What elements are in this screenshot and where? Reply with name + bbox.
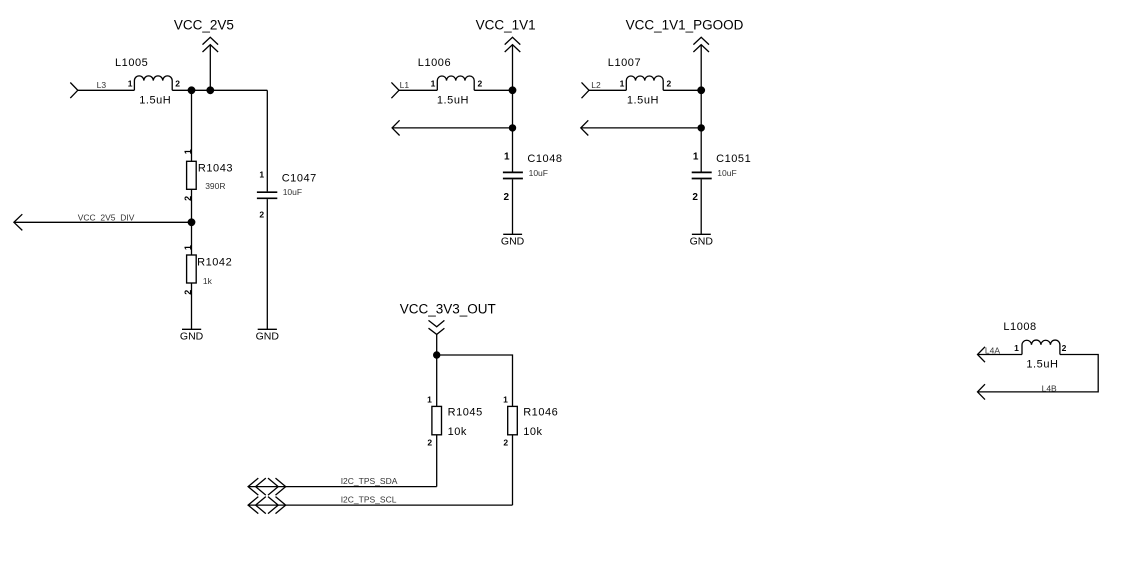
wire L1006 to VCC_1V1 node bbox=[474, 89, 512, 91]
svg-text:VCC_3V3_OUT: VCC_3V3_OUT bbox=[400, 302, 496, 317]
wire feedback PGOOD bbox=[581, 127, 701, 129]
ground GND (C1047) bbox=[256, 329, 280, 342]
connector bidir I2C_TPS_SDA bbox=[248, 478, 286, 495]
svg-text:1.5uH: 1.5uH bbox=[1026, 359, 1058, 371]
net label L4B bbox=[1042, 384, 1057, 394]
pin 2 C1048 bbox=[504, 192, 510, 203]
svg-text:10uF: 10uF bbox=[283, 187, 302, 197]
pin 2 R1042 bbox=[183, 290, 193, 295]
svg-text:1: 1 bbox=[427, 395, 432, 405]
pin 2 C1047 bbox=[259, 210, 264, 220]
svg-text:2: 2 bbox=[259, 210, 264, 220]
svg-text:10k: 10k bbox=[523, 426, 542, 438]
svg-text:2: 2 bbox=[692, 192, 698, 203]
svg-text:R1042: R1042 bbox=[197, 256, 232, 268]
svg-text:10k: 10k bbox=[448, 426, 467, 438]
svg-text:I2C_TPS_SDA: I2C_TPS_SDA bbox=[341, 476, 398, 486]
svg-text:1: 1 bbox=[431, 79, 436, 89]
svg-text:R1043: R1043 bbox=[198, 162, 233, 174]
wire R1045 to SDA bbox=[436, 435, 438, 487]
junction node VCC_2V5_DIV bbox=[188, 218, 196, 226]
svg-text:10uF: 10uF bbox=[717, 168, 736, 178]
svg-text:VCC_2V5_DIV: VCC_2V5_DIV bbox=[78, 213, 135, 223]
connector L3 input arrow bbox=[70, 83, 78, 99]
svg-text:10uF: 10uF bbox=[529, 168, 548, 178]
pin 1 R1046 bbox=[503, 395, 508, 405]
resistor R1042 bbox=[187, 255, 197, 283]
svg-text:1: 1 bbox=[693, 152, 699, 163]
svg-text:1.5uH: 1.5uH bbox=[139, 95, 171, 107]
svg-text:2: 2 bbox=[1062, 343, 1067, 353]
value 390R bbox=[205, 181, 225, 191]
svg-text:C1051: C1051 bbox=[716, 153, 751, 165]
net label L2 bbox=[591, 80, 601, 90]
pin 2 L1007 bbox=[667, 79, 672, 89]
inductor L1007 bbox=[626, 76, 663, 90]
wire L4A to L1008 bbox=[978, 354, 1023, 356]
wire L1005 to C1047 branch bbox=[172, 89, 267, 91]
pin 1 R1045 bbox=[427, 395, 432, 405]
inductor L1006 bbox=[437, 76, 474, 90]
svg-text:I2C_TPS_SCL: I2C_TPS_SCL bbox=[341, 495, 397, 505]
pin 1 C1048 bbox=[504, 152, 510, 163]
wire I2C_TPS_SCL bbox=[248, 504, 512, 506]
svg-text:L3: L3 bbox=[97, 80, 107, 90]
svg-text:L1005: L1005 bbox=[115, 57, 148, 69]
junction node feedback PGOOD bbox=[698, 124, 705, 131]
svg-text:2: 2 bbox=[478, 79, 483, 89]
svg-text:R1046: R1046 bbox=[523, 407, 558, 419]
connector L2 input arrow bbox=[582, 82, 590, 98]
svg-text:VCC_1V1_PGOOD: VCC_1V1_PGOOD bbox=[626, 17, 744, 32]
connector feedback arrow PGOOD bbox=[581, 120, 589, 135]
wire C1048 bottom bbox=[512, 179, 514, 234]
junction node R1043 top bbox=[188, 86, 196, 94]
svg-text:1: 1 bbox=[503, 395, 508, 405]
wire DIV node to R1042 bbox=[191, 222, 193, 255]
wire R1042 to ground bbox=[191, 283, 193, 329]
pin 2 C1051 bbox=[692, 192, 698, 203]
pin 1 L1006 bbox=[431, 79, 436, 89]
wire L1007 to VCC_1V1_PGOOD node bbox=[663, 89, 701, 91]
wire C1051 top bbox=[700, 128, 702, 172]
net label I2C_TPS_SDA bbox=[341, 476, 398, 486]
wire L2 to L1007 bbox=[589, 89, 626, 91]
value 10k R1046 bbox=[523, 426, 542, 438]
svg-text:L1008: L1008 bbox=[1003, 321, 1036, 333]
wire C1047 top bbox=[266, 90, 268, 191]
svg-text:GND: GND bbox=[180, 331, 204, 343]
power label VCC_1V1 bbox=[476, 17, 536, 32]
svg-text:L1006: L1006 bbox=[418, 57, 451, 69]
value 10uF C1048 bbox=[529, 168, 548, 178]
wire VCC_1V1 node down bbox=[512, 90, 514, 128]
power VCC_1V1 symbol bbox=[505, 37, 521, 90]
pin 1 R1042 bbox=[183, 245, 193, 250]
resistor R1043 bbox=[187, 161, 197, 189]
net label L4A bbox=[985, 346, 1000, 356]
svg-text:2: 2 bbox=[427, 437, 432, 447]
resistor R1046 bbox=[508, 406, 518, 434]
wire R1043 to DIV node bbox=[191, 189, 193, 222]
net label VCC_2V5_DIV bbox=[78, 213, 135, 223]
label R1045 bbox=[448, 407, 483, 419]
ground GND (R1042) bbox=[180, 329, 204, 342]
junction node VCC_1V1 bbox=[509, 86, 517, 94]
svg-text:2: 2 bbox=[504, 192, 510, 203]
label L1006 bbox=[418, 57, 451, 69]
wire C1047 bottom bbox=[266, 199, 268, 329]
svg-text:1: 1 bbox=[183, 245, 193, 250]
junction node VCC_1V1_PGOOD bbox=[697, 86, 705, 94]
value 1k bbox=[203, 276, 213, 286]
svg-text:L1007: L1007 bbox=[608, 57, 641, 69]
pin 1 R1043 bbox=[183, 149, 193, 154]
pin 2 L1008 bbox=[1062, 343, 1067, 353]
svg-text:L4B: L4B bbox=[1042, 384, 1057, 394]
wire 3V3 node to R1046 branch bbox=[437, 355, 513, 406]
wire VCC_1V1_PGOOD node down bbox=[700, 90, 702, 128]
pin 1 L1005 bbox=[128, 79, 133, 89]
net label L3 bbox=[97, 80, 107, 90]
wire C1051 bottom bbox=[700, 179, 702, 234]
value 1.5uH L1007 bbox=[627, 95, 659, 107]
pin 2 L1006 bbox=[478, 79, 483, 89]
svg-text:1.5uH: 1.5uH bbox=[627, 95, 659, 107]
power label VCC_2V5 bbox=[174, 17, 234, 32]
wire L1008 to right corner bbox=[978, 355, 1099, 392]
svg-text:L4A: L4A bbox=[985, 346, 1000, 356]
label L1007 bbox=[608, 57, 641, 69]
resistor R1045 bbox=[432, 406, 442, 434]
connector L4B arrow bbox=[978, 384, 986, 399]
capacitor C1048 bbox=[503, 172, 523, 178]
pin 2 L1005 bbox=[175, 79, 180, 89]
svg-text:L2: L2 bbox=[591, 80, 601, 90]
label C1048 bbox=[527, 153, 562, 165]
wire R1046 to SCL bbox=[512, 435, 514, 505]
wire C1048 top bbox=[512, 128, 514, 172]
svg-text:VCC_1V1: VCC_1V1 bbox=[476, 17, 536, 32]
label L1005 bbox=[115, 57, 148, 69]
wire L3 to L1005 bbox=[78, 89, 135, 91]
svg-text:GND: GND bbox=[501, 236, 525, 248]
svg-text:C1048: C1048 bbox=[527, 153, 562, 165]
wire I2C_TPS_SDA bbox=[248, 486, 437, 488]
capacitor C1047 bbox=[257, 192, 277, 198]
svg-text:L1: L1 bbox=[400, 80, 410, 90]
svg-text:GND: GND bbox=[256, 331, 280, 343]
svg-text:2: 2 bbox=[667, 79, 672, 89]
label C1051 bbox=[716, 153, 751, 165]
pin 1 C1051 bbox=[693, 152, 699, 163]
connector feedback arrow VCC_1V1 bbox=[392, 120, 400, 135]
ground GND (C1051) bbox=[690, 234, 714, 247]
ground GND (C1048) bbox=[501, 234, 525, 247]
wire L1 to L1006 bbox=[399, 89, 437, 91]
svg-text:R1045: R1045 bbox=[448, 407, 483, 419]
svg-text:390R: 390R bbox=[205, 181, 225, 191]
value 10uF C1051 bbox=[717, 168, 736, 178]
power label VCC_1V1_PGOOD bbox=[626, 17, 744, 32]
svg-text:1: 1 bbox=[128, 79, 133, 89]
pin 2 R1043 bbox=[183, 196, 193, 201]
pin 1 L1008 bbox=[1014, 343, 1019, 353]
svg-text:1: 1 bbox=[183, 149, 193, 154]
connector VCC_2V5_DIV arrow bbox=[14, 214, 22, 230]
svg-text:1.5uH: 1.5uH bbox=[437, 95, 469, 107]
value 10uF C1047 bbox=[283, 187, 302, 197]
junction node VCC_3V3_OUT bbox=[433, 351, 440, 358]
pin 1 L1007 bbox=[620, 79, 625, 89]
label C1047 bbox=[282, 173, 317, 185]
pin 1 C1047 bbox=[259, 169, 264, 179]
net label I2C_TPS_SCL bbox=[341, 495, 397, 505]
svg-text:1: 1 bbox=[504, 152, 510, 163]
svg-text:C1047: C1047 bbox=[282, 173, 317, 185]
value 10k R1045 bbox=[448, 426, 467, 438]
pin 2 R1045 bbox=[427, 437, 432, 447]
value 1.5uH L1006 bbox=[437, 95, 469, 107]
wire VCC_2V5 node to R1043 bbox=[191, 90, 193, 161]
pin 2 R1046 bbox=[503, 437, 508, 447]
power VCC_1V1_PGOOD symbol bbox=[693, 37, 709, 90]
svg-text:2: 2 bbox=[175, 79, 180, 89]
junction node feedback VCC_1V1 bbox=[509, 124, 516, 131]
inductor L1008 bbox=[1022, 340, 1060, 354]
junction node VCC_2V5 bbox=[206, 86, 214, 94]
label L1008 bbox=[1003, 321, 1036, 333]
label R1046 bbox=[523, 407, 558, 419]
svg-text:2: 2 bbox=[503, 437, 508, 447]
inductor L1005 bbox=[134, 76, 172, 90]
svg-text:GND: GND bbox=[690, 236, 714, 248]
wire feedback VCC_1V1 bbox=[392, 127, 512, 129]
svg-text:VCC_2V5: VCC_2V5 bbox=[174, 17, 234, 32]
value 1.5uH L1008 bbox=[1026, 359, 1058, 371]
power VCC_2V5 symbol bbox=[203, 37, 219, 90]
svg-text:1k: 1k bbox=[203, 276, 213, 286]
value 1.5uH L1005 bbox=[139, 95, 171, 107]
svg-text:1: 1 bbox=[1014, 343, 1019, 353]
net label L1 bbox=[400, 80, 410, 90]
label R1043 bbox=[198, 162, 233, 174]
power VCC_3V3_OUT symbol bbox=[429, 320, 445, 355]
power label VCC_3V3_OUT bbox=[400, 302, 496, 317]
svg-text:1: 1 bbox=[259, 169, 264, 179]
wire 3V3 node to R1045 bbox=[436, 355, 438, 406]
svg-text:1: 1 bbox=[620, 79, 625, 89]
connector bidir I2C_TPS_SCL bbox=[248, 497, 286, 514]
connector L4A arrow bbox=[978, 347, 986, 362]
connector L1 input arrow bbox=[391, 82, 399, 98]
wire VCC_2V5_DIV bbox=[14, 221, 192, 223]
label R1042 bbox=[197, 256, 232, 268]
capacitor C1051 bbox=[692, 172, 712, 178]
